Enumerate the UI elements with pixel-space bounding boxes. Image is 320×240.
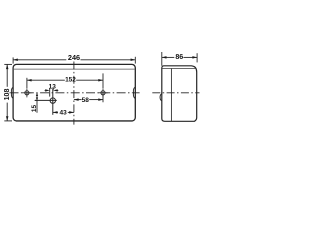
dim 58 [74,95,103,102]
lens parting line (front view) [14,68,135,70]
dim 246 [13,57,135,64]
svg-text:86: 86 [175,53,183,61]
bottom edge accent [16,120,133,122]
svg-text:58: 58 [82,97,90,104]
dimension texts [3,53,183,116]
dim 152 [27,73,103,88]
svg-text:15: 15 [31,105,38,113]
dim 108 [4,64,12,121]
dim 43 [53,111,74,114]
horizontal centerline [10,92,140,94]
mounting tab left [11,87,13,99]
center hole [35,88,57,115]
side view outline [162,66,197,122]
svg-text:108: 108 [3,89,11,101]
side step line [170,69,172,122]
dim 86 [162,52,197,66]
dim 15 [35,93,39,113]
svg-text:246: 246 [68,53,80,62]
mounting tab right [133,87,135,99]
side tab bump [160,94,162,101]
svg-text:13: 13 [49,84,57,91]
side lens parting line [162,68,197,70]
bolt right [98,88,107,97]
dim 13 [45,88,59,96]
side centerline [152,92,199,94]
svg-text:152: 152 [65,76,76,83]
lamp front view outline [13,64,135,121]
vertical centerline [73,62,75,125]
bolt left [22,88,31,97]
svg-text:43: 43 [59,110,67,117]
